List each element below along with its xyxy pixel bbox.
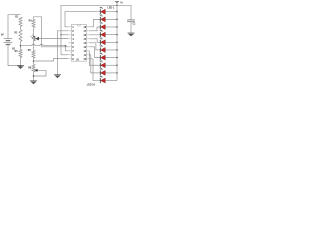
node junction battery ground: [20, 65, 22, 67]
node junction R2-R3 tap: [20, 45, 22, 47]
wire LED7 anode to bus: [105, 57, 117, 59]
LED 6: [99, 47, 101, 52]
wire photodiode to pin4: [39, 38, 68, 40]
battery B1 plates: [4, 38, 13, 40]
photodiode D1 arrows: [32, 34, 34, 36]
wire LED8 anode to bus: [105, 64, 117, 66]
photodiode D1: [34, 36, 36, 41]
wire V+ loop pin3: [61, 34, 68, 36]
ground middle column: [30, 80, 37, 82]
resistor R4: [32, 19, 35, 27]
svg-text:9V: 9V: [1, 35, 4, 37]
wire R4 to photodiode: [33, 28, 35, 39]
svg-text:LED 1: LED 1: [107, 7, 114, 10]
wire LED2 anode to bus: [105, 18, 117, 20]
wire LED4 anode to bus: [105, 34, 117, 36]
wire V+ rail loop: [61, 5, 117, 55]
wire R5 to R6: [33, 58, 35, 64]
resistor R5: [32, 50, 35, 58]
wire pot top loop: [34, 17, 69, 47]
wire LED3 anode to bus: [105, 26, 117, 28]
wire R3 down to ground: [20, 58, 22, 66]
wire LED10 anode to bus: [105, 80, 117, 82]
wire LED5 anode to bus: [105, 41, 117, 43]
node junction V+ loop: [60, 34, 62, 36]
V+ bus: [116, 3, 118, 80]
wire V+ loop to pin8: [61, 54, 68, 56]
LED 10: [99, 78, 101, 83]
potentiometer R6 wiper: [34, 69, 37, 72]
LED 9: [99, 70, 101, 75]
wire column to R4: [33, 39, 35, 51]
resistor R1: [19, 17, 22, 26]
node junction signal-refadj: [65, 45, 67, 47]
resistor R2: [19, 30, 22, 42]
wire R6 wiper loop to bottom: [34, 70, 47, 76]
wire R6 to ground: [33, 72, 35, 81]
ground capacitor: [128, 32, 135, 34]
V+ bus junction dots: [116, 5, 117, 6]
LED 2: [99, 17, 101, 22]
wire capacitor to ground: [130, 22, 132, 33]
node junction R5-R6: [33, 60, 35, 62]
op-amp U1 IC body: [72, 24, 87, 61]
ground spine symbol: [54, 74, 61, 76]
LED 4: [99, 32, 101, 37]
wire V+ to capacitor: [117, 5, 131, 19]
potentiometer R6: [32, 64, 35, 72]
ground battery: [17, 65, 24, 67]
capacitor C1: [127, 19, 135, 21]
node junction R6 bottom: [33, 75, 35, 77]
wire LED6 anode to bus: [105, 49, 117, 51]
wire R1 to R2: [20, 26, 22, 29]
wire R2 to tap: [20, 41, 22, 49]
V+ supply symbol: [115, 0, 119, 2]
LED 7: [99, 55, 101, 60]
LED 5: [99, 40, 101, 45]
wire ground spine pin2: [58, 31, 69, 75]
wire pin1 loop to LED1: [65, 12, 100, 27]
wire R5-R6 tap to pin9: [34, 59, 69, 61]
svg-text:C1: C1: [133, 24, 136, 26]
LED 1: [99, 9, 101, 14]
wire signal drop to pin7: [66, 46, 72, 51]
svg-text:LED 10: LED 10: [87, 83, 96, 86]
wires IC outputs to LEDs staircase: [89, 19, 100, 26]
battery B1 9V positive wire: [8, 15, 21, 39]
LED 8: [99, 63, 101, 68]
wire signal tap with hops: [21, 44, 66, 46]
LED 3: [99, 25, 101, 30]
battery B1 negative wire: [8, 45, 21, 66]
wire LED1 anode to bus: [105, 11, 117, 13]
resistor R3: [19, 50, 22, 58]
wire LED9 anode to bus: [105, 72, 117, 74]
IC pin stubs: [68, 26, 71, 28]
